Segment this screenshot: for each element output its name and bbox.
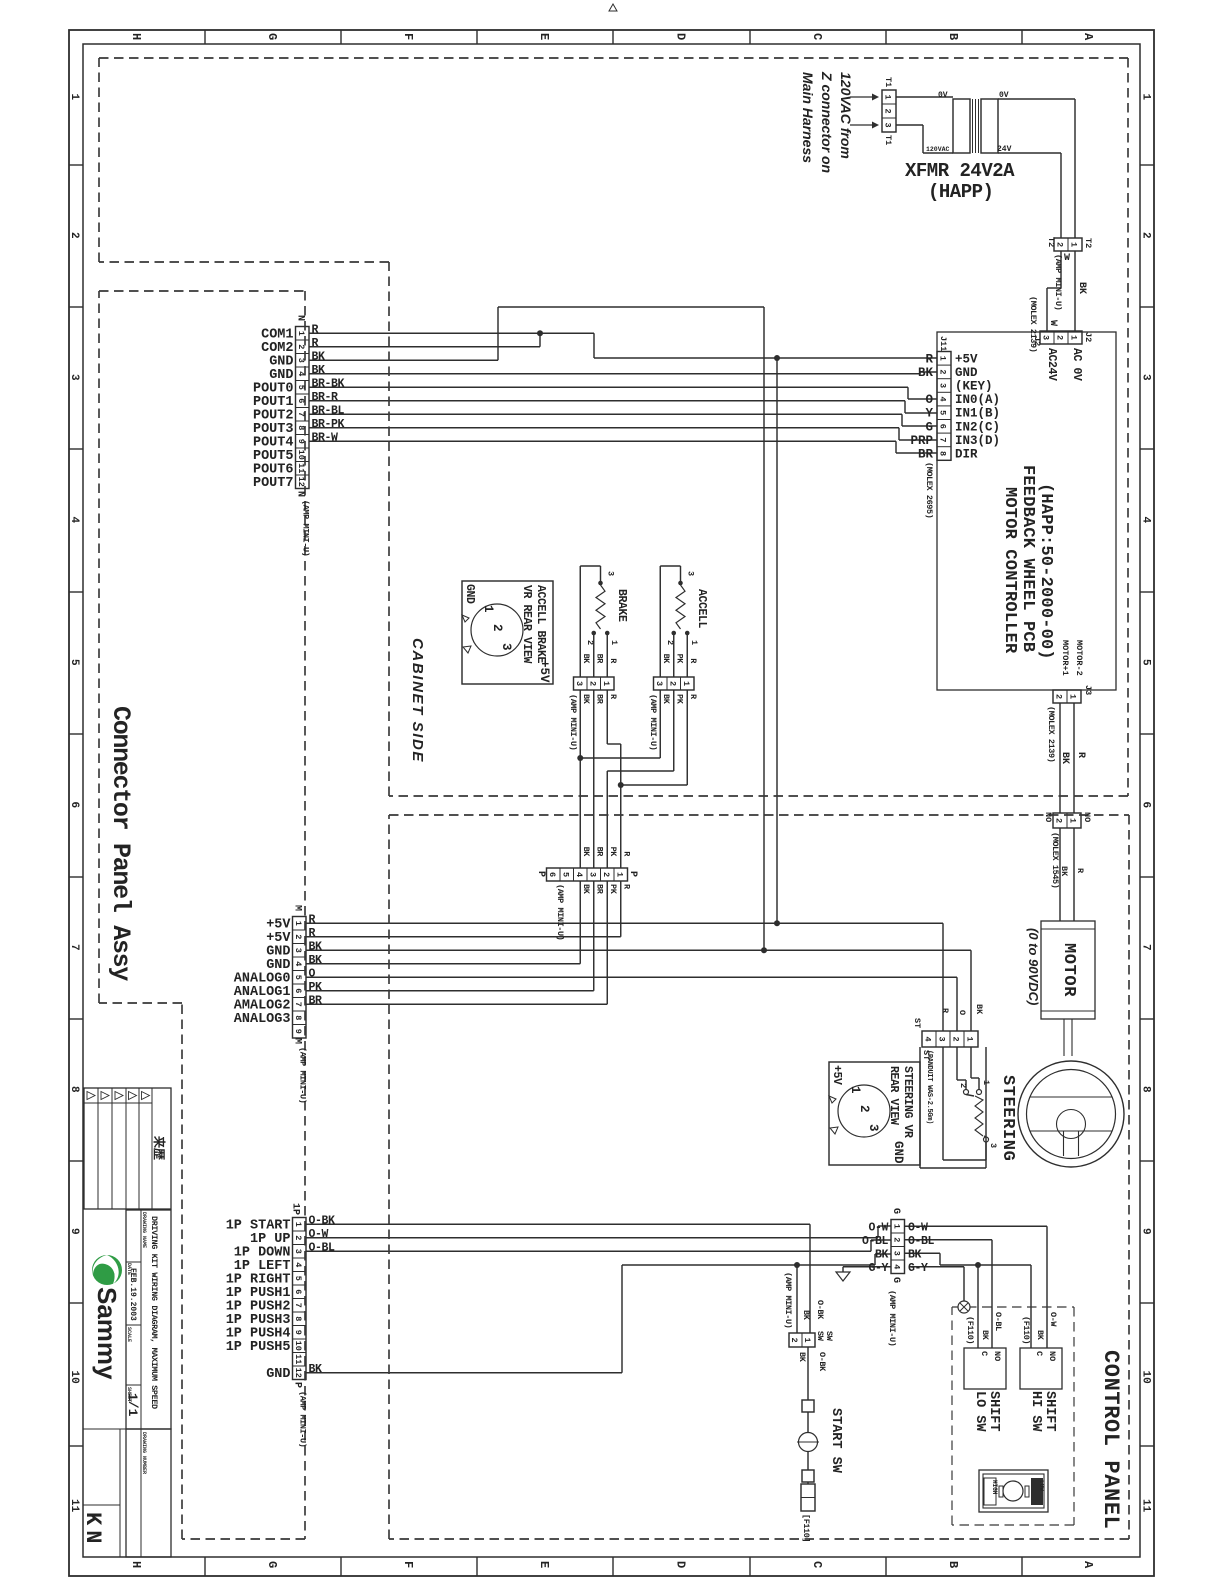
svg-text:2: 2 — [667, 681, 677, 686]
svg-text:(MOLEX 2139): (MOLEX 2139) — [1028, 296, 1038, 352]
svg-text:SW: SW — [824, 1331, 834, 1342]
svg-text:1: 1 — [68, 94, 80, 101]
svg-text:Sammy: Sammy — [92, 1287, 122, 1380]
svg-text:7: 7 — [938, 437, 948, 442]
svg-text:H: H — [129, 1561, 143, 1568]
svg-text:1: 1 — [481, 605, 495, 613]
svg-text:REAR VIEW: REAR VIEW — [887, 1066, 900, 1125]
svg-text:3: 3 — [1140, 374, 1152, 381]
svg-text:(AMP MINI-U): (AMP MINI-U) — [648, 694, 658, 750]
svg-text:GND: GND — [891, 1141, 905, 1164]
svg-text:3: 3 — [883, 122, 893, 127]
svg-text:1: 1 — [296, 331, 306, 336]
svg-text:BK: BK — [581, 694, 591, 705]
svg-text:J11: J11 — [938, 336, 948, 351]
svg-text:BK: BK — [1035, 1330, 1045, 1341]
svg-text:A: A — [1081, 1561, 1095, 1569]
svg-text:8: 8 — [68, 1086, 80, 1093]
svg-text:H: H — [129, 33, 143, 40]
svg-text:Connector Panel Assy: Connector Panel Assy — [106, 706, 135, 981]
svg-text:5: 5 — [560, 872, 570, 877]
svg-text:N: N — [295, 491, 306, 497]
svg-text:5: 5 — [1140, 659, 1152, 666]
svg-text:SCALE: SCALE — [126, 1327, 132, 1342]
svg-text:BR: BR — [594, 847, 604, 858]
svg-text:1/1: 1/1 — [125, 1393, 140, 1417]
svg-text:3: 3 — [654, 681, 664, 686]
svg-text:C: C — [979, 1351, 989, 1356]
svg-text:PK: PK — [608, 847, 618, 858]
svg-text:BK: BK — [312, 350, 326, 363]
svg-text:O-BK: O-BK — [815, 1300, 825, 1320]
svg-text:1: 1 — [1069, 335, 1079, 340]
svg-text:2: 2 — [68, 232, 80, 239]
svg-text:来歴: 来歴 — [151, 1135, 167, 1160]
svg-text:IN1(B): IN1(B) — [955, 407, 1000, 421]
svg-text:1: 1 — [614, 872, 624, 877]
svg-text:3: 3 — [988, 1143, 998, 1148]
svg-text:O: O — [925, 393, 933, 407]
svg-text:(PANDUIT WAS-2.5Gm): (PANDUIT WAS-2.5Gm) — [925, 1050, 933, 1124]
svg-text:24V: 24V — [997, 145, 1012, 154]
svg-text:11: 11 — [68, 1499, 80, 1513]
svg-text:Main Harness: Main Harness — [800, 72, 816, 163]
svg-text:4: 4 — [296, 371, 306, 376]
svg-text:D: D — [674, 33, 688, 40]
svg-text:MOTOR: MOTOR — [1059, 943, 1078, 997]
svg-text:HIGH: HIGH — [991, 1480, 998, 1495]
svg-text:BR: BR — [918, 448, 934, 462]
svg-text:GND: GND — [266, 1367, 290, 1382]
svg-text:R: R — [940, 1008, 950, 1014]
svg-text:O-BL: O-BL — [993, 1312, 1003, 1331]
svg-text:1: 1 — [689, 640, 699, 645]
svg-text:LO SW: LO SW — [972, 1391, 987, 1432]
svg-text:O-BK: O-BK — [309, 1214, 336, 1227]
svg-text:KN: KN — [80, 1512, 105, 1548]
svg-text:6: 6 — [293, 1289, 303, 1294]
svg-text:BR: BR — [594, 654, 604, 665]
svg-text:SHIFT: SHIFT — [1042, 1391, 1057, 1432]
svg-text:2: 2 — [789, 1337, 799, 1342]
svg-text:3: 3 — [606, 571, 616, 576]
svg-text:(AMP MINI-U): (AMP MINI-U) — [783, 1272, 793, 1328]
svg-text:VR REAR VIEW: VR REAR VIEW — [520, 585, 533, 664]
svg-text:PRP: PRP — [910, 434, 933, 448]
svg-text:O: O — [309, 967, 316, 980]
svg-text:O-BL: O-BL — [862, 1235, 889, 1248]
svg-text:3: 3 — [938, 383, 948, 388]
svg-text:9: 9 — [293, 1330, 303, 1335]
svg-text:120VAC: 120VAC — [926, 146, 950, 153]
svg-text:POUT7: POUT7 — [253, 476, 294, 491]
svg-text:B: B — [946, 33, 960, 40]
svg-text:(AMP MINI-U): (AMP MINI-U) — [555, 884, 565, 940]
svg-text:R: R — [312, 323, 319, 336]
svg-text:P: P — [535, 871, 546, 877]
svg-text:R: R — [309, 913, 316, 926]
svg-text:+5V: +5V — [537, 660, 551, 683]
svg-text:C: C — [1034, 1351, 1044, 1356]
svg-text:BR-R: BR-R — [312, 391, 339, 404]
svg-text:BK: BK — [974, 1004, 984, 1015]
svg-text:1: 1 — [891, 1224, 901, 1229]
svg-text:2: 2 — [883, 108, 893, 113]
svg-text:ACCELL: ACCELL — [695, 589, 708, 629]
svg-text:BK: BK — [908, 1248, 922, 1261]
svg-text:START SW: START SW — [828, 1408, 843, 1474]
svg-text:1: 1 — [965, 1036, 975, 1041]
svg-text:P: P — [627, 871, 638, 877]
svg-text:2: 2 — [601, 872, 611, 877]
svg-text:G-Y: G-Y — [908, 1262, 928, 1275]
svg-text:[F110]: [F110] — [801, 1514, 811, 1542]
svg-text:DRAWING NUMBER: DRAWING NUMBER — [141, 1432, 147, 1474]
svg-text:O-BL: O-BL — [309, 1241, 336, 1254]
svg-text:STEERING VR: STEERING VR — [901, 1066, 914, 1138]
svg-text:+5V: +5V — [955, 352, 978, 366]
svg-text:BK: BK — [312, 364, 326, 377]
svg-text:1: 1 — [981, 1080, 991, 1085]
svg-text:STEERING: STEERING — [998, 1075, 1017, 1161]
svg-text:6: 6 — [296, 398, 306, 403]
svg-text:1: 1 — [1068, 818, 1078, 823]
svg-text:1P: 1P — [290, 1203, 301, 1215]
svg-text:A: A — [1081, 33, 1095, 41]
svg-text:G: G — [265, 1561, 279, 1568]
svg-text:(AMP MINI-U): (AMP MINI-U) — [1053, 254, 1063, 310]
svg-text:9: 9 — [1140, 1228, 1152, 1235]
svg-text:ACCELL BRAKE: ACCELL BRAKE — [534, 585, 547, 664]
svg-text:IN0(A): IN0(A) — [955, 393, 1000, 407]
svg-text:GND: GND — [955, 366, 978, 380]
svg-text:3: 3 — [499, 643, 513, 651]
svg-text:BR: BR — [594, 694, 604, 705]
svg-text:4: 4 — [938, 397, 948, 402]
svg-text:1: 1 — [1140, 94, 1152, 101]
svg-text:BRAKE: BRAKE — [615, 589, 628, 622]
svg-text:T1: T1 — [883, 77, 893, 87]
svg-text:4: 4 — [1140, 517, 1152, 524]
svg-text:2: 2 — [1140, 232, 1152, 239]
svg-text:7: 7 — [293, 1002, 303, 1007]
svg-text:MOTOR CONTROLLER: MOTOR CONTROLLER — [1000, 487, 1019, 654]
svg-text:R: R — [925, 352, 933, 366]
svg-text:CABINET SIDE: CABINET SIDE — [409, 638, 426, 763]
svg-text:5: 5 — [293, 1276, 303, 1281]
svg-text:F: F — [401, 33, 415, 40]
svg-text:PK: PK — [674, 694, 684, 705]
svg-text:6: 6 — [293, 988, 303, 993]
svg-text:NO: NO — [992, 1351, 1002, 1361]
svg-text:BK: BK — [661, 654, 671, 665]
svg-text:E: E — [537, 1561, 551, 1568]
svg-text:DRAWING NAME: DRAWING NAME — [141, 1212, 147, 1248]
svg-text:8: 8 — [938, 451, 948, 456]
svg-text:1: 1 — [883, 94, 893, 99]
svg-text:10: 10 — [296, 450, 306, 460]
svg-text:R: R — [312, 337, 319, 350]
svg-text:HI SW: HI SW — [1028, 1391, 1043, 1432]
svg-text:2: 2 — [951, 1036, 961, 1041]
svg-text:C: C — [810, 33, 824, 40]
svg-text:8: 8 — [296, 425, 306, 430]
svg-text:AC24V: AC24V — [1045, 348, 1058, 381]
svg-text:4: 4 — [293, 961, 303, 966]
svg-text:BR: BR — [309, 994, 323, 1007]
svg-text:J3: J3 — [1083, 685, 1093, 695]
svg-text:2: 2 — [938, 369, 948, 374]
svg-text:IN2(C): IN2(C) — [955, 420, 1000, 434]
svg-text:9: 9 — [68, 1228, 80, 1235]
svg-text:1: 1 — [609, 640, 619, 645]
svg-text:PK: PK — [608, 884, 618, 895]
svg-text:(0 to 90VDC): (0 to 90VDC) — [1026, 928, 1041, 1005]
svg-text:BK: BK — [1059, 752, 1070, 764]
svg-text:2: 2 — [891, 1237, 901, 1242]
svg-text:(AMP MINI-U): (AMP MINI-U) — [568, 694, 578, 750]
svg-text:MOTOR-2: MOTOR-2 — [1074, 640, 1084, 676]
svg-text:1: 1 — [938, 356, 948, 361]
svg-text:2: 2 — [293, 1235, 303, 1240]
svg-text:BK: BK — [980, 1330, 990, 1341]
svg-text:BR-BL: BR-BL — [312, 404, 345, 417]
svg-text:(F110): (F110) — [1021, 1316, 1031, 1344]
svg-text:10: 10 — [68, 1371, 80, 1384]
svg-text:12: 12 — [293, 1368, 303, 1378]
svg-text:SHIFT: SHIFT — [986, 1391, 1001, 1432]
svg-text:R: R — [1075, 752, 1086, 758]
svg-text:2: 2 — [857, 1105, 871, 1113]
svg-text:IN3(D): IN3(D) — [955, 434, 1000, 448]
svg-text:P: P — [292, 1382, 303, 1388]
svg-text:BK: BK — [581, 654, 591, 665]
svg-text:2: 2 — [296, 344, 306, 349]
svg-text:T2: T2 — [1046, 237, 1056, 247]
svg-text:NO: NO — [1082, 812, 1092, 822]
svg-text:3: 3 — [293, 948, 303, 953]
svg-text:4: 4 — [923, 1036, 933, 1041]
svg-text:(AMP MINI-U): (AMP MINI-U) — [887, 1290, 897, 1346]
svg-text:BK: BK — [661, 694, 671, 705]
svg-text:(AMP MINI-U): (AMP MINI-U) — [298, 1391, 308, 1447]
svg-text:8: 8 — [293, 1015, 303, 1020]
svg-text:2: 2 — [665, 640, 675, 645]
svg-text:BK: BK — [1076, 282, 1087, 294]
svg-text:F: F — [401, 1561, 415, 1568]
svg-text:T2: T2 — [1083, 238, 1093, 248]
svg-text:6: 6 — [938, 424, 948, 429]
svg-text:B: B — [946, 1561, 960, 1568]
svg-text:10: 10 — [293, 1341, 303, 1351]
svg-text:O-BK: O-BK — [817, 1352, 827, 1372]
svg-text:0V: 0V — [999, 91, 1009, 100]
svg-text:O-BL: O-BL — [908, 1235, 935, 1248]
svg-text:9: 9 — [293, 1029, 303, 1034]
svg-text:6: 6 — [547, 872, 557, 877]
svg-text:BK: BK — [918, 366, 934, 380]
svg-text:7: 7 — [1140, 944, 1152, 951]
svg-text:12: 12 — [296, 477, 306, 487]
svg-text:BR-W: BR-W — [312, 431, 339, 444]
svg-text:2: 2 — [490, 624, 504, 632]
svg-text:BR-BK: BR-BK — [312, 377, 345, 390]
svg-text:2: 2 — [1054, 694, 1064, 699]
svg-text:8: 8 — [1140, 1086, 1152, 1093]
svg-text:XFMR 24V2A: XFMR 24V2A — [905, 160, 1015, 182]
svg-text:DIR: DIR — [955, 448, 978, 462]
svg-text:BK: BK — [797, 1352, 807, 1363]
svg-text:0V: 0V — [938, 91, 948, 100]
svg-text:2: 2 — [585, 640, 595, 645]
svg-text:BR: BR — [594, 884, 604, 895]
svg-text:BK: BK — [309, 940, 323, 953]
svg-text:NO: NO — [1047, 1351, 1057, 1361]
svg-text:(MOLEX 2695): (MOLEX 2695) — [924, 462, 934, 518]
svg-text:3: 3 — [686, 571, 696, 576]
svg-text:11: 11 — [1140, 1499, 1152, 1513]
svg-text:W: W — [1047, 320, 1058, 326]
svg-text:4: 4 — [574, 872, 584, 877]
svg-text:3: 3 — [296, 358, 306, 363]
svg-text:G: G — [890, 1208, 901, 1214]
svg-text:O-W: O-W — [309, 1228, 329, 1241]
svg-text:FEEDBACK WHEEL PCB: FEEDBACK WHEEL PCB — [1018, 465, 1037, 652]
svg-text:FEB.19.2003: FEB.19.2003 — [128, 1268, 137, 1321]
svg-text:4: 4 — [68, 517, 80, 524]
svg-text:5: 5 — [296, 385, 306, 390]
svg-text:1: 1 — [1069, 242, 1079, 247]
svg-text:BK: BK — [875, 1248, 889, 1261]
svg-text:(AMP MINI-U): (AMP MINI-U) — [298, 1047, 308, 1103]
svg-text:NO: NO — [1043, 812, 1053, 822]
svg-text:CONTROL PANEL: CONTROL PANEL — [1098, 1350, 1123, 1529]
svg-text:(F110): (F110) — [965, 1316, 975, 1344]
svg-text:(MOLEX 1545): (MOLEX 1545) — [1050, 832, 1060, 888]
svg-text:7: 7 — [68, 944, 80, 951]
svg-text:AC 0V: AC 0V — [1070, 348, 1083, 381]
svg-text:BK: BK — [801, 1310, 811, 1321]
svg-text:7: 7 — [296, 412, 306, 417]
svg-text:(HAPP:50-2000-00): (HAPP:50-2000-00) — [1036, 483, 1055, 660]
svg-text:2: 2 — [1055, 335, 1065, 340]
svg-text:3: 3 — [68, 374, 80, 381]
svg-text:SW: SW — [815, 1331, 825, 1342]
svg-text:(HAPP): (HAPP) — [928, 181, 993, 203]
svg-text:LOW: LOW — [1038, 1480, 1045, 1491]
svg-text:2: 2 — [958, 1083, 968, 1088]
svg-text:BK: BK — [309, 954, 323, 967]
svg-text:Y: Y — [925, 407, 933, 421]
svg-text:R: R — [309, 927, 316, 940]
svg-text:1P PUSH5: 1P PUSH5 — [226, 1340, 291, 1355]
svg-text:120VAC from: 120VAC from — [838, 72, 854, 159]
svg-text:ST: ST — [912, 1018, 922, 1028]
svg-text:3: 3 — [866, 1124, 880, 1132]
svg-text:11: 11 — [296, 463, 306, 473]
svg-text:BK: BK — [309, 1363, 323, 1376]
svg-text:M: M — [292, 1038, 303, 1044]
svg-text:PK: PK — [674, 654, 684, 665]
svg-text:1: 1 — [802, 1337, 812, 1342]
svg-text:1: 1 — [681, 681, 691, 686]
svg-text:ANALOG3: ANALOG3 — [234, 1012, 291, 1027]
svg-text:3: 3 — [293, 1249, 303, 1254]
svg-text:(MOLEX 2139): (MOLEX 2139) — [1046, 706, 1056, 762]
svg-text:O-W: O-W — [868, 1221, 888, 1234]
svg-text:5: 5 — [938, 410, 948, 415]
svg-text:5: 5 — [68, 659, 80, 666]
svg-text:W: W — [1064, 253, 1070, 264]
svg-text:BR-PK: BR-PK — [312, 418, 345, 431]
svg-text:BK: BK — [581, 884, 591, 895]
svg-text:Z connector on: Z connector on — [819, 71, 835, 173]
svg-text:7: 7 — [293, 1303, 303, 1308]
svg-text:4: 4 — [293, 1262, 303, 1267]
svg-text:3: 3 — [891, 1251, 901, 1256]
svg-text:+5V: +5V — [830, 1065, 843, 1085]
svg-text:1: 1 — [1068, 694, 1078, 699]
svg-text:G: G — [265, 33, 279, 40]
svg-text:3: 3 — [937, 1036, 947, 1041]
svg-text:T1: T1 — [883, 135, 893, 145]
svg-text:9: 9 — [296, 439, 306, 444]
svg-text:BK: BK — [581, 847, 591, 858]
svg-text:MOTOR+1: MOTOR+1 — [1060, 640, 1070, 676]
svg-text:G-Y: G-Y — [868, 1262, 888, 1275]
svg-text:C: C — [810, 1561, 824, 1568]
svg-text:BK: BK — [1059, 866, 1069, 877]
svg-text:2: 2 — [587, 681, 597, 686]
svg-text:(AMP MINI-U): (AMP MINI-U) — [301, 500, 311, 556]
svg-text:O: O — [957, 1010, 967, 1015]
svg-text:G: G — [925, 420, 933, 434]
svg-text:N: N — [295, 315, 306, 321]
svg-text:8: 8 — [293, 1316, 303, 1321]
svg-text:2: 2 — [1054, 818, 1064, 823]
svg-text:2: 2 — [293, 934, 303, 939]
svg-text:3: 3 — [574, 681, 584, 686]
svg-text:10: 10 — [1140, 1371, 1152, 1384]
svg-text:GND: GND — [463, 584, 476, 604]
svg-text:O-W: O-W — [1048, 1312, 1058, 1327]
svg-text:G: G — [890, 1277, 901, 1283]
svg-text:PK: PK — [309, 981, 323, 994]
svg-text:11: 11 — [293, 1354, 303, 1364]
svg-text:(KEY): (KEY) — [955, 380, 993, 394]
svg-text:6: 6 — [1140, 802, 1152, 809]
svg-text:D: D — [674, 1561, 688, 1568]
svg-text:3: 3 — [587, 872, 597, 877]
svg-text:5: 5 — [293, 975, 303, 980]
svg-text:J2: J2 — [1083, 332, 1093, 342]
svg-text:M: M — [292, 905, 303, 911]
svg-text:4: 4 — [891, 1264, 901, 1269]
svg-text:1: 1 — [293, 1222, 303, 1227]
svg-text:1: 1 — [601, 681, 611, 686]
svg-text:R: R — [1075, 868, 1085, 874]
svg-text:DRIVING KIT WIRING DIAGRAM, MA: DRIVING KIT WIRING DIAGRAM, MAXIMUM SPEE… — [149, 1216, 159, 1409]
svg-text:O-W: O-W — [908, 1221, 928, 1234]
svg-text:E: E — [537, 33, 551, 40]
svg-text:1: 1 — [293, 921, 303, 926]
svg-text:1: 1 — [848, 1086, 862, 1094]
svg-text:6: 6 — [68, 802, 80, 809]
